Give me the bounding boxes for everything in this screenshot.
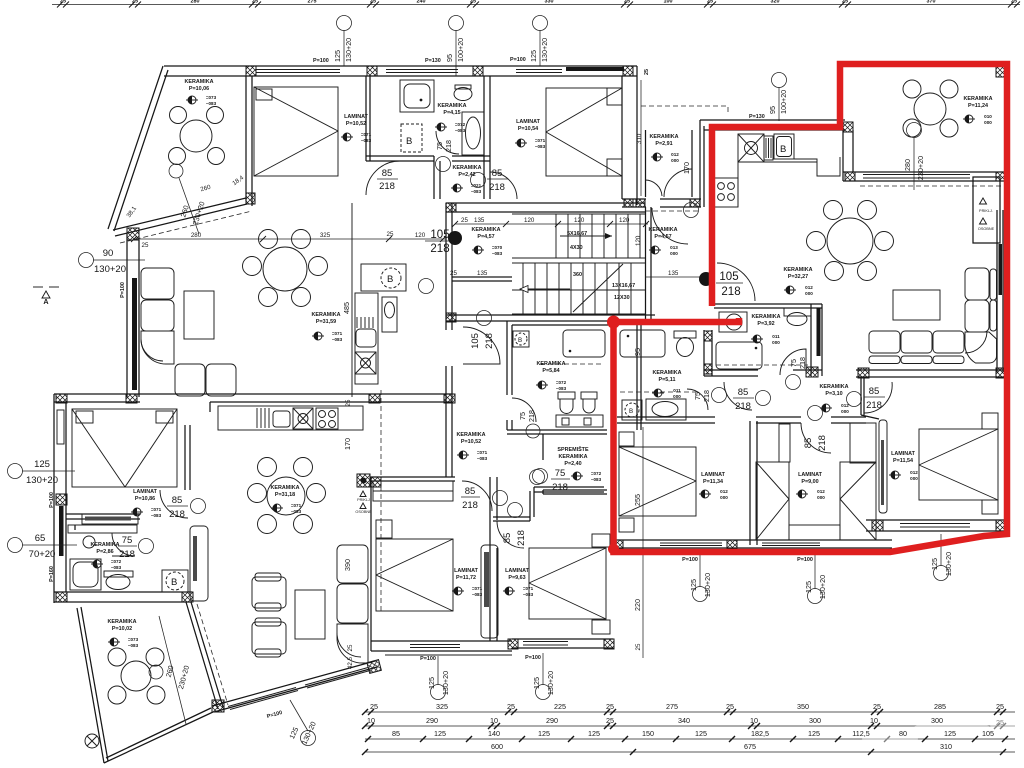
west wall windows <box>57 410 64 444</box>
svg-text:000: 000 <box>673 394 681 399</box>
svg-text:25: 25 <box>635 643 642 650</box>
nightstands 963 <box>592 534 610 547</box>
terraceB west wall <box>842 122 844 181</box>
coffee table B <box>893 290 940 320</box>
svg-text:85: 85 <box>392 729 400 738</box>
svg-text:KERAMIKA: KERAMIKA <box>437 103 466 109</box>
svg-text:000: 000 <box>720 495 728 500</box>
kitchenD oven tower <box>382 297 397 332</box>
bedroom2 south wall <box>622 198 646 200</box>
svg-text:135: 135 <box>474 217 485 224</box>
svg-text:P=4,15: P=4,15 <box>443 110 460 116</box>
top wall window bedroom1 <box>256 69 340 71</box>
svg-text:125: 125 <box>808 729 820 738</box>
terrace table top-left <box>180 120 212 152</box>
corridorB west wall <box>703 330 705 376</box>
balloon 125/130+20 mid <box>533 16 548 31</box>
svg-text:−083: −083 <box>361 138 372 143</box>
svg-text:000: 000 <box>841 409 849 414</box>
bedroom963 south wall <box>512 638 613 640</box>
svg-text:P=32,27: P=32,27 <box>788 274 808 280</box>
kitchenB sink B unit <box>774 134 794 159</box>
coffee tableD <box>184 291 214 339</box>
svg-text:012: 012 <box>817 489 825 494</box>
top wall window bath <box>386 69 458 71</box>
svg-text:85: 85 <box>502 533 513 544</box>
svg-text:125: 125 <box>34 459 50 470</box>
svg-text:LAMINAT: LAMINAT <box>344 114 369 120</box>
pier hatches top wall <box>367 66 377 76</box>
svg-text:B: B <box>518 337 522 344</box>
svg-text:P=100: P=100 <box>420 656 436 662</box>
svg-text:P=100: P=100 <box>510 57 526 63</box>
svg-text:10: 10 <box>870 716 878 725</box>
svg-text:KERAMIKA: KERAMIKA <box>311 312 340 318</box>
hall C west walls <box>74 525 76 530</box>
upper flight rails <box>512 213 645 215</box>
bedroom1086/bath wall <box>66 513 140 515</box>
south wall bedrooms B <box>613 539 892 541</box>
svg-text:000: 000 <box>671 158 679 163</box>
svg-text:25: 25 <box>726 702 734 711</box>
svg-text:A: A <box>43 297 48 306</box>
svg-text:KERAMIKA: KERAMIKA <box>652 370 681 376</box>
svg-text:218: 218 <box>817 435 828 451</box>
svg-text:218: 218 <box>430 243 449 255</box>
bath south wall / terrace top <box>54 591 192 593</box>
svg-text:218: 218 <box>735 401 751 412</box>
door arc 963 <box>497 521 524 548</box>
svg-text:B: B <box>629 408 633 415</box>
kitchenC counter <box>218 406 363 430</box>
hallB door arc right <box>864 382 892 413</box>
svg-text:P=10,52: P=10,52 <box>346 121 366 127</box>
bedroom900 door arc <box>801 423 831 453</box>
svg-text:218: 218 <box>527 410 536 422</box>
svg-text:350: 350 <box>797 702 809 711</box>
svg-text:75: 75 <box>789 359 798 367</box>
svg-text:KERAMIKA: KERAMIKA <box>648 227 677 233</box>
balloon kitchenD top <box>419 279 434 294</box>
sofaC strip <box>337 545 368 663</box>
svg-text:130+20: 130+20 <box>818 575 827 599</box>
bed bedroom1154 <box>919 429 998 500</box>
lobby west wall <box>445 203 447 330</box>
svg-text:112,5: 112,5 <box>852 729 869 738</box>
svg-text:25: 25 <box>644 69 650 75</box>
svg-text:P=11,54: P=11,54 <box>893 458 913 464</box>
door arc 1172 <box>462 481 492 511</box>
hallC east wall <box>209 402 211 412</box>
bath B511 walls <box>640 325 642 430</box>
svg-text:SPREMIŠTE: SPREMIŠTE <box>557 445 589 453</box>
bed bedroom1086 <box>72 409 177 487</box>
svg-text:P=9,63: P=9,63 <box>508 575 525 581</box>
svg-text:85: 85 <box>465 486 476 497</box>
svg-text:130+20: 130+20 <box>94 264 126 275</box>
door arc hallD <box>463 327 500 364</box>
svg-text:=071: =071 <box>151 507 162 512</box>
svg-text:25: 25 <box>387 231 394 238</box>
svg-text:325: 325 <box>436 702 448 711</box>
terraceC drain <box>85 734 99 748</box>
svg-text:218: 218 <box>119 549 135 560</box>
svg-text:95: 95 <box>768 106 777 114</box>
svg-text:125: 125 <box>930 558 939 570</box>
living parapet diagonal with windows <box>214 667 377 712</box>
svg-text:P=100: P=100 <box>49 492 55 508</box>
svg-text:100: 100 <box>664 0 673 5</box>
terraceB south wall <box>843 171 1007 173</box>
svg-text:218: 218 <box>169 509 185 520</box>
wardrobe hallC <box>190 526 208 601</box>
kitchenB west wall <box>699 120 701 207</box>
svg-text:25: 25 <box>450 270 457 277</box>
hallB door arc left <box>724 382 752 410</box>
svg-text:P=5,84: P=5,84 <box>542 368 559 374</box>
svg-text:280: 280 <box>191 232 202 239</box>
svg-text:25: 25 <box>461 217 468 224</box>
top dimension chain line <box>52 4 1020 6</box>
svg-text:218: 218 <box>721 286 740 298</box>
svg-text:010: 010 <box>984 114 992 119</box>
svg-text:675: 675 <box>744 742 756 751</box>
svg-text:485: 485 <box>342 302 351 314</box>
svg-text:P=31,59: P=31,59 <box>316 319 336 325</box>
svg-text:125: 125 <box>333 50 342 62</box>
svg-text:25: 25 <box>996 702 1004 711</box>
svg-text:5X16,67: 5X16,67 <box>567 231 587 237</box>
svg-text:218: 218 <box>552 482 568 493</box>
vanity 511 <box>646 399 686 420</box>
svg-text:KERAMIKA: KERAMIKA <box>184 79 213 85</box>
svg-text:125: 125 <box>538 729 550 738</box>
svg-text:285: 285 <box>934 702 946 711</box>
washer B 511 <box>622 400 642 420</box>
east exterior wall upper <box>636 66 638 205</box>
svg-text:125: 125 <box>588 729 600 738</box>
svg-text:390: 390 <box>343 559 352 571</box>
svg-text:P=4,57: P=4,57 <box>477 234 494 240</box>
utility shaft <box>973 177 1000 243</box>
bathB392 tub <box>716 342 762 369</box>
balloon corridor east <box>684 203 699 218</box>
bedroom1172 south wall <box>371 640 512 642</box>
svg-text:85: 85 <box>492 168 503 179</box>
corridor mid wall <box>452 276 512 278</box>
diningD table <box>263 247 307 291</box>
svg-text:225: 225 <box>554 702 566 711</box>
svg-text:KERAMIKA: KERAMIKA <box>456 432 485 438</box>
svg-text:P=2,42: P=2,42 <box>458 172 475 178</box>
svg-text:KERAMIKA: KERAMIKA <box>536 361 565 367</box>
svg-text:−083: −083 <box>455 128 466 133</box>
bed bedroom963 <box>529 548 606 619</box>
svg-text:P=11,72: P=11,72 <box>456 575 476 581</box>
terraceC west edge <box>77 608 104 763</box>
svg-text:25: 25 <box>606 702 614 711</box>
svg-text:140: 140 <box>488 729 500 738</box>
tub bath415 <box>462 112 484 155</box>
wardrobe bedroom1172 <box>373 481 453 501</box>
svg-text:120: 120 <box>635 235 642 246</box>
svg-text:85: 85 <box>803 438 814 449</box>
dashed 511 <box>620 391 700 393</box>
svg-text:=071: =071 <box>535 138 546 143</box>
door arc lobby to east corridor <box>652 208 688 244</box>
svg-text:95: 95 <box>633 348 642 356</box>
terraceB table <box>914 93 946 125</box>
washer B bath415 <box>401 124 422 152</box>
svg-text:125: 125 <box>695 729 707 738</box>
svg-text:130+20: 130+20 <box>703 573 712 597</box>
svg-text:−083: −083 <box>151 513 162 518</box>
svg-text:KERAMIKA: KERAMIKA <box>783 267 812 273</box>
svg-text:70+20: 70+20 <box>29 549 56 560</box>
svg-text:25: 25 <box>470 0 476 5</box>
door arc bath415 <box>366 161 400 195</box>
dresser bedroom1086 <box>82 514 138 524</box>
svg-text:325: 325 <box>320 232 331 239</box>
svg-text:KERAMIKA: KERAMIKA <box>963 96 992 102</box>
windows in south wall B <box>660 542 722 544</box>
door arc bath286 <box>112 533 135 556</box>
svg-text:25: 25 <box>142 242 149 249</box>
svg-text:LAMINAT: LAMINAT <box>505 568 530 574</box>
bathB392 door arc <box>780 349 806 375</box>
bathB392 east wall <box>810 304 812 376</box>
svg-text:218: 218 <box>489 182 505 193</box>
svg-text:150: 150 <box>642 729 654 738</box>
svg-text:012: 012 <box>720 489 728 494</box>
svg-text:25: 25 <box>624 0 630 5</box>
svg-text:P=100: P=100 <box>313 58 329 64</box>
svg-text:P=10,54: P=10,54 <box>518 126 538 132</box>
svg-text:75: 75 <box>435 142 444 150</box>
svg-text:220: 220 <box>633 599 642 611</box>
diningC table <box>267 477 305 515</box>
svg-text:P=3,92: P=3,92 <box>757 321 774 327</box>
wc 511 <box>674 331 696 338</box>
bed bedroom1134 <box>619 447 696 516</box>
main flight treads <box>523 263 631 314</box>
svg-text:25: 25 <box>1011 0 1017 5</box>
svg-text:255: 255 <box>633 494 642 506</box>
svg-text:P=160: P=160 <box>49 566 55 582</box>
door arc bedroom1086 <box>160 490 188 518</box>
svg-text:280: 280 <box>903 159 912 171</box>
svg-text:218: 218 <box>702 390 711 402</box>
svg-text:4X30: 4X30 <box>570 245 583 251</box>
svg-text:=071: =071 <box>472 586 483 591</box>
bedroom1134 nightstands <box>619 432 634 446</box>
svg-text:012: 012 <box>805 285 813 290</box>
wardrobe2 1172 <box>481 545 498 638</box>
sofaD <box>141 268 236 396</box>
door arc 511 <box>687 389 708 410</box>
svg-text:105: 105 <box>982 729 994 738</box>
svg-text:310: 310 <box>940 742 952 751</box>
svg-text:300: 300 <box>809 716 821 725</box>
svg-text:KERAMIKA: KERAMIKA <box>452 165 481 171</box>
svg-text:P=2,40: P=2,40 <box>564 461 581 467</box>
vestibule side walls <box>645 130 647 197</box>
bathB392 south wall <box>704 369 758 371</box>
kitchenB dishrack <box>764 136 773 160</box>
stair dims <box>455 223 648 225</box>
apartment B entry door label <box>699 272 713 286</box>
balloon 95/100+20 <box>449 16 464 31</box>
svg-text:130+20: 130+20 <box>344 38 353 62</box>
svg-text:−083: −083 <box>111 565 122 570</box>
svg-text:P=2,91: P=2,91 <box>655 141 672 147</box>
svg-text:290: 290 <box>426 716 438 725</box>
svg-text:−083: −083 <box>472 592 483 597</box>
balloon 125/130+20 left <box>337 16 352 31</box>
svg-text:218: 218 <box>484 333 495 349</box>
row2 line <box>365 725 1015 727</box>
top dim ticks <box>57 2 1020 8</box>
svg-text:OSOBNE: OSOBNE <box>978 227 995 231</box>
svg-text:85: 85 <box>869 386 880 397</box>
red corner dot 2 <box>608 544 619 555</box>
svg-text:012: 012 <box>671 152 679 157</box>
washer B hallC <box>162 570 188 592</box>
bedroom963 upper walls <box>493 516 530 518</box>
svg-text:218: 218 <box>444 140 453 152</box>
svg-text:120: 120 <box>619 217 630 224</box>
row1 line <box>365 711 1015 713</box>
svg-text:330: 330 <box>545 0 554 5</box>
terraceC bottom edge <box>104 712 213 763</box>
svg-text:218: 218 <box>516 530 527 546</box>
kitchenD counter strip <box>355 293 378 384</box>
svg-text:PRIKLJ: PRIKLJ <box>357 498 370 502</box>
svg-text:P=11,34: P=11,34 <box>703 479 723 485</box>
wc bath415 <box>454 88 472 101</box>
svg-text:KERAMIKA: KERAMIKA <box>270 485 299 491</box>
svg-text:KERAMIKA: KERAMIKA <box>471 227 500 233</box>
terraceB dashed overhang <box>860 185 1005 187</box>
balloon 65/70+20 west <box>8 538 23 553</box>
svg-text:125: 125 <box>529 50 538 62</box>
svg-text:=021: =021 <box>471 183 482 188</box>
svg-text:=071: =071 <box>523 586 534 591</box>
wall between 900 and 1154 <box>860 377 862 415</box>
svg-text:P=100: P=100 <box>797 557 813 563</box>
svg-text:275: 275 <box>308 0 317 5</box>
prikljucak triangles <box>980 198 987 224</box>
dashed roof line over lobby <box>641 106 728 112</box>
svg-text:130+20: 130+20 <box>546 671 555 695</box>
svg-text:=073: =073 <box>206 95 217 100</box>
svg-text:230+20: 230+20 <box>916 156 925 180</box>
armchairsC <box>252 577 286 608</box>
section marker A <box>33 287 59 298</box>
svg-text:−083: −083 <box>291 509 302 514</box>
sink bath286 <box>83 536 95 548</box>
svg-text:10: 10 <box>367 716 375 725</box>
svg-text:370: 370 <box>927 0 936 5</box>
svg-text:B: B <box>171 577 177 588</box>
kitchenB cooktop <box>714 178 738 207</box>
wc pair 584 <box>558 392 575 399</box>
bedroom1172 west wall <box>370 477 372 651</box>
svg-text:KERAMIKA: KERAMIKA <box>90 542 119 548</box>
coffee tableC <box>295 590 325 639</box>
sofaB L-shape <box>869 268 997 364</box>
svg-text:P=10,06: P=10,06 <box>189 86 209 92</box>
svg-text:280: 280 <box>191 0 200 5</box>
section line A dash <box>380 390 382 611</box>
svg-text:LAMINAT: LAMINAT <box>133 489 158 495</box>
terraceC diag dim <box>149 665 163 679</box>
svg-text:−083: −083 <box>128 643 139 648</box>
svg-text:25: 25 <box>606 716 614 725</box>
svg-text:000: 000 <box>910 476 918 481</box>
terraceB window <box>863 174 970 176</box>
svg-text:218: 218 <box>379 181 395 192</box>
svg-text:−083: −083 <box>477 456 488 461</box>
svg-text:125: 125 <box>804 581 813 593</box>
svg-text:120: 120 <box>574 217 585 224</box>
svg-text:KERAMIKA: KERAMIKA <box>751 314 780 320</box>
kitchenB counter: sink unit <box>738 134 764 162</box>
svg-text:25: 25 <box>507 702 515 711</box>
terrace S slanted parapet <box>113 198 246 230</box>
upper flight treads <box>556 214 640 258</box>
bedroom1172 north wall <box>371 476 455 478</box>
svg-text:KERAMIKA: KERAMIKA <box>819 384 848 390</box>
svg-text:=072: =072 <box>455 122 466 127</box>
dashed ceiling 584 <box>540 363 604 365</box>
bedroom1086 east wall <box>184 425 186 490</box>
top wall lintel dark band <box>566 67 624 71</box>
svg-text:85: 85 <box>382 168 393 179</box>
svg-text:218: 218 <box>866 400 882 411</box>
tub 511 <box>620 330 665 357</box>
svg-text:130+20: 130+20 <box>944 552 953 576</box>
kitchen thin wall <box>351 203 353 397</box>
svg-text:25: 25 <box>252 0 258 5</box>
wc bath286 <box>104 571 133 577</box>
terrace S dashed overhang <box>120 211 252 243</box>
svg-text:130+20: 130+20 <box>540 38 549 62</box>
svg-text:P=130: P=130 <box>425 58 441 64</box>
tub 584 <box>563 330 605 357</box>
hallB south walls <box>793 369 822 371</box>
vanity 584 <box>556 415 603 427</box>
south wall bedroom 1154 <box>866 519 1007 521</box>
wall between 1134 and 900 <box>749 421 751 545</box>
svg-text:−083: −083 <box>206 101 217 106</box>
svg-text:013: 013 <box>670 245 678 250</box>
bath south wall <box>366 155 434 157</box>
storage room <box>543 429 607 431</box>
faint watermark bottom right <box>862 719 1018 743</box>
main flight rails <box>512 262 645 264</box>
terrace E wall <box>245 76 247 201</box>
svg-text:−083: −083 <box>556 386 567 391</box>
bed bedroom900 <box>756 462 789 540</box>
svg-text:P=31,18: P=31,18 <box>275 492 295 498</box>
trapezoid diag dim <box>169 164 183 178</box>
living west wall <box>126 234 128 397</box>
balloon 280/230+20 terraceB <box>907 123 922 138</box>
svg-text:KERAMIKA: KERAMIKA <box>649 134 678 140</box>
svg-text:B: B <box>780 144 786 155</box>
svg-text:75: 75 <box>693 392 702 400</box>
